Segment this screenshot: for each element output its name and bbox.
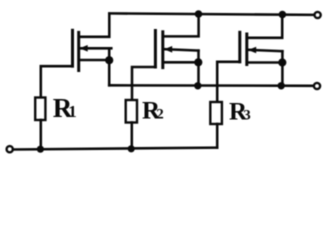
wire: Q2 source lead [164,61,199,64]
wire: Q1 gate lead left and down to R1 [41,66,73,97]
wire: Q1 body lead [80,47,112,50]
terminal: middle-right output (open circle) [314,83,320,89]
junction node: Q3 source on source rail [278,82,285,89]
wire: middle source rail [109,84,313,87]
resistor R2 body [126,100,137,123]
terminal: bottom-left input (open circle) [7,146,13,152]
junction node: Q3 drain on top rail [279,11,287,19]
transistor Q3 gate bar [238,32,241,62]
wire: Q3 drain up to top rail [248,14,282,37]
wire: Q1 drain up to top rail [80,14,110,37]
transistor Q3 channel bar [245,34,248,65]
wire: bottom gate-bias rail [14,148,218,150]
svg-text:3: 3 [243,108,251,124]
junction node: Q1 source/body [105,56,113,64]
transistor Q2 gate bar [154,31,157,68]
resistor R1 body [35,98,45,121]
arrowhead: Q2 body arrow pointing left [164,46,172,53]
wire: Q2 source column down to source rail [197,51,200,86]
resistor R3 body [210,102,222,124]
wire: Q2 drain up to top rail [164,14,199,36]
junction node: R2 on bottom rail [128,145,135,152]
wire: R1 bottom lead to bottom rail [40,120,43,149]
wire: top drain rail [109,13,314,15]
svg-text:2: 2 [156,107,164,123]
terminal: top-right output (open circle) [315,12,321,18]
junction node: Q3 source/body [278,58,286,66]
wire: Q3 source column down to source rail [281,51,284,86]
wire: Q3 source lead [248,61,283,64]
arrowhead: Q1 body arrow pointing left [80,45,88,52]
wire: R2 bottom lead to bottom rail [131,123,134,149]
svg-text:1: 1 [68,102,77,121]
wire: Q2 body lead [164,49,199,50]
wire: Q3 body lead [248,50,283,51]
junction node: Q2 source/body [194,58,202,66]
wire: R3 bottom lead to bottom rail [216,124,219,148]
arrowhead: Q3 body arrow pointing left [248,47,256,54]
junction node: Q2 drain on top rail [195,10,203,18]
junction node: R1 on bottom rail [37,146,44,153]
wire: Q3 gate lead left and down to R3 [217,62,240,102]
transistor Q1 gate bar [71,30,74,66]
transistor Q2 channel bar [161,32,164,68]
wire: Q1 source column down to source rail [108,48,111,85]
junction node: Q2 source on source rail [194,82,201,89]
transistor Q1 channel bar [77,32,80,70]
wire: Q2 gate lead left and down to R2 [132,67,155,100]
wire: Q1 source lead [80,59,110,62]
